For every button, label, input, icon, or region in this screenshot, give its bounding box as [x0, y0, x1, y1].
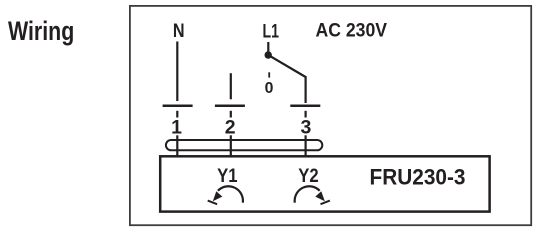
- wire terminal 3 into actuator: [305, 135, 307, 156]
- switch open-position dash: [268, 72, 270, 77]
- wire terminal 2 into actuator: [230, 135, 232, 156]
- svg-text:N: N: [173, 20, 185, 42]
- terminal 1 bar: [163, 104, 193, 107]
- switch pivot dot: [265, 51, 272, 58]
- wire stub below terminal 2: [230, 111, 232, 118]
- svg-text:1: 1: [171, 117, 182, 139]
- svg-text:L1: L1: [263, 20, 280, 42]
- wire stub below terminal 3: [305, 111, 307, 118]
- wire switch to terminal 3: [305, 76, 307, 103]
- switch arm (closed to terminal 3): [269, 55, 306, 77]
- wire terminal 1 into actuator: [176, 135, 178, 156]
- terminal 3 bar: [290, 104, 320, 107]
- svg-text:3: 3: [300, 117, 311, 139]
- svg-text:Y1: Y1: [217, 165, 238, 187]
- svg-text:FRU230-3: FRU230-3: [370, 164, 466, 189]
- wire stub below terminal 1: [176, 111, 178, 118]
- Y1 rotation arrow (counterclockwise): [208, 186, 243, 204]
- diagram frame: [130, 6, 531, 225]
- wire N to terminal 1: [176, 42, 178, 102]
- actuator box FRU230-3: [160, 156, 489, 211]
- terminal 2 bar: [215, 104, 245, 107]
- wire L1 to switch pivot: [267, 42, 269, 52]
- svg-text:Y2: Y2: [298, 165, 319, 187]
- wire stub above terminal 2: [230, 73, 232, 99]
- svg-text:Wiring: Wiring: [8, 16, 74, 46]
- svg-text:0: 0: [265, 80, 274, 97]
- svg-text:2: 2: [225, 117, 236, 139]
- Y2 rotation arrow (clockwise): [295, 186, 330, 204]
- svg-text:AC 230V: AC 230V: [316, 19, 388, 41]
- connector strip (pill): [166, 140, 322, 150]
